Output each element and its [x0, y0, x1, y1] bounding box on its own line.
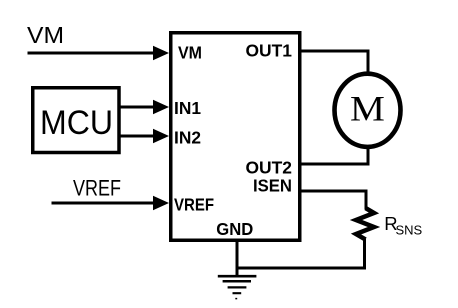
svg-text:VM: VM — [27, 22, 64, 48]
svg-text:VREF: VREF — [174, 195, 214, 215]
svg-text:OUT2: OUT2 — [246, 158, 293, 178]
svg-text:M: M — [350, 89, 385, 129]
svg-text:IN1: IN1 — [174, 98, 201, 118]
svg-text:VREF: VREF — [73, 175, 121, 200]
svg-text:MCU: MCU — [40, 104, 113, 142]
svg-text:IN2: IN2 — [174, 128, 201, 148]
svg-text:GND: GND — [216, 219, 253, 239]
svg-text:SNS: SNS — [396, 222, 423, 237]
svg-text:OUT1: OUT1 — [246, 41, 293, 61]
svg-text:ISEN: ISEN — [253, 176, 292, 196]
svg-text:VM: VM — [178, 43, 202, 63]
